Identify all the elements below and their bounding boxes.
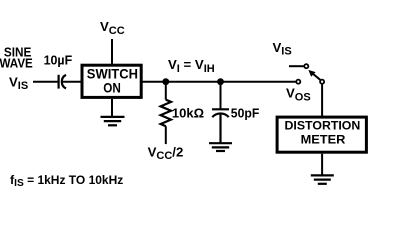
block DISTORTION METER bbox=[277, 117, 366, 152]
wire C1 to switch block bbox=[62, 81, 82, 83]
wire VCC stem bbox=[111, 39, 113, 66]
wire node VI bbox=[141, 81, 296, 83]
svg-text:SWITCH: SWITCH bbox=[87, 66, 138, 81]
svg-text:50pF: 50pF bbox=[231, 106, 259, 121]
capacitor C2 50pF bbox=[212, 82, 259, 144]
svg-text:DISTORTION: DISTORTION bbox=[285, 119, 361, 133]
wire VIS to C1 bbox=[33, 81, 58, 83]
source label SINE WAVE bbox=[0, 45, 33, 71]
wire pole to meter bbox=[321, 84, 323, 117]
switch S1 bbox=[296, 64, 324, 84]
junction at resistor bbox=[162, 78, 169, 85]
svg-text:ON: ON bbox=[103, 80, 121, 95]
ground under switch block bbox=[101, 99, 125, 125]
capacitor C1 10uF bbox=[44, 53, 73, 89]
ground under C2 bbox=[209, 143, 232, 151]
junction at capacitor bbox=[217, 78, 224, 85]
wire VIS throw bbox=[289, 65, 304, 67]
svg-text:WAVE: WAVE bbox=[0, 56, 33, 71]
svg-text:10kΩ: 10kΩ bbox=[172, 106, 205, 121]
svg-text:METER: METER bbox=[301, 132, 346, 146]
ground under meter bbox=[311, 154, 334, 184]
block U1 SWITCH ON bbox=[82, 65, 141, 97]
svg-text:fIS = 1kHz TO 10kHz: fIS = 1kHz TO 10kHz bbox=[10, 173, 123, 189]
svg-text:10µF: 10µF bbox=[44, 53, 73, 68]
resistor R1 10k bbox=[161, 82, 205, 144]
